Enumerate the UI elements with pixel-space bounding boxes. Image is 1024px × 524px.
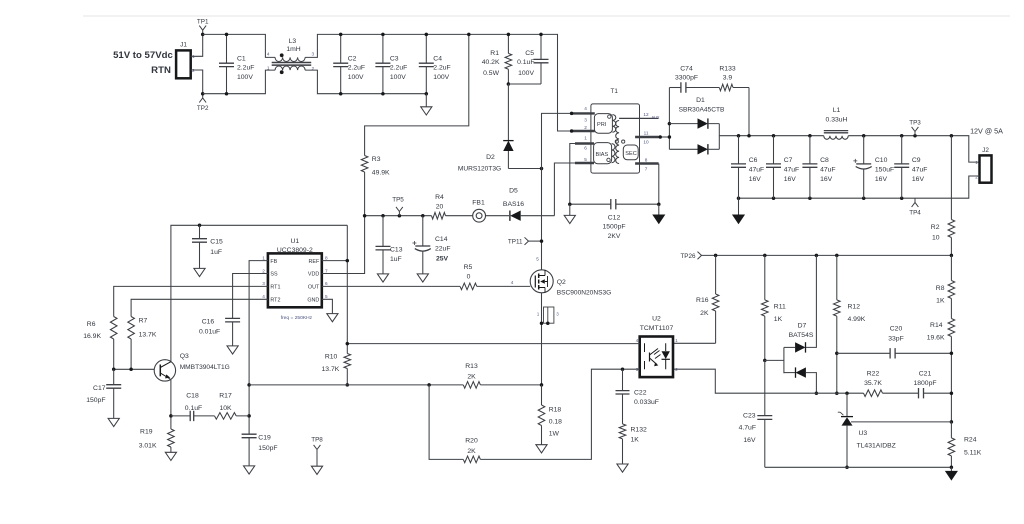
mosfet Q2 source pins box bbox=[541, 293, 543, 385]
svg-text:TP3: TP3 bbox=[909, 120, 921, 127]
svg-text:R20: R20 bbox=[465, 438, 478, 445]
svg-text:C4: C4 bbox=[433, 55, 442, 62]
svg-text:2.2uF: 2.2uF bbox=[390, 64, 407, 71]
svg-text:R132: R132 bbox=[631, 427, 647, 434]
capacitor C4 bbox=[425, 34, 427, 93]
svg-text:C3: C3 bbox=[390, 55, 399, 62]
ground U1 bbox=[327, 314, 338, 322]
resistor R6 bbox=[110, 317, 117, 340]
svg-text:0: 0 bbox=[467, 274, 471, 281]
svg-text:25V: 25V bbox=[436, 255, 449, 262]
svg-text:BIAS: BIAS bbox=[596, 152, 609, 158]
svg-text:C14: C14 bbox=[435, 236, 448, 243]
svg-text:16V: 16V bbox=[784, 176, 797, 183]
svg-text:J1: J1 bbox=[180, 42, 187, 49]
svg-text:1500pF: 1500pF bbox=[602, 224, 625, 231]
svg-text:10: 10 bbox=[932, 235, 940, 242]
svg-text:40.2K: 40.2K bbox=[482, 59, 500, 66]
svg-text:20: 20 bbox=[436, 204, 444, 211]
svg-text:R10: R10 bbox=[325, 354, 338, 361]
svg-text:2: 2 bbox=[584, 125, 587, 130]
resistor R132 bbox=[619, 424, 626, 439]
svg-text:C21: C21 bbox=[919, 371, 932, 378]
svg-text:5: 5 bbox=[536, 257, 539, 262]
resistor R24 bbox=[950, 422, 952, 467]
svg-text:100V: 100V bbox=[348, 74, 364, 81]
svg-text:U1: U1 bbox=[290, 238, 299, 245]
wire FB sense line bbox=[249, 384, 541, 386]
wire Q3 collector to REF rail bbox=[171, 225, 347, 361]
wire VDD row bbox=[365, 215, 509, 217]
capacitor C12 bbox=[611, 199, 616, 209]
svg-text:2K: 2K bbox=[700, 310, 709, 317]
svg-text:U2: U2 bbox=[652, 316, 661, 323]
svg-text:16V: 16V bbox=[875, 176, 888, 183]
svg-text:4: 4 bbox=[262, 294, 265, 299]
svg-text:1mH: 1mH bbox=[286, 46, 300, 53]
svg-text:16.9K: 16.9K bbox=[83, 333, 101, 340]
wire secondary 8-7 to secondary ground bbox=[658, 164, 660, 205]
svg-text:T1: T1 bbox=[611, 88, 619, 95]
svg-text:5.11K: 5.11K bbox=[964, 450, 982, 457]
capacitor C20 bbox=[837, 352, 952, 354]
svg-text:TP4: TP4 bbox=[909, 209, 921, 216]
svg-text:D7: D7 bbox=[798, 323, 807, 330]
svg-text:C18: C18 bbox=[186, 392, 199, 399]
resistor R1 bbox=[507, 34, 509, 84]
svg-text:3: 3 bbox=[312, 52, 315, 57]
transformer T1 outline bbox=[591, 104, 640, 173]
capacitor C17 bbox=[113, 369, 115, 418]
svg-text:2: 2 bbox=[262, 268, 265, 273]
svg-text:C22: C22 bbox=[634, 390, 647, 397]
svg-text:BAT54S: BAT54S bbox=[789, 332, 814, 339]
svg-text:Q2: Q2 bbox=[557, 279, 566, 286]
svg-text:C19: C19 bbox=[258, 435, 271, 442]
resistor R11 bbox=[764, 255, 766, 360]
svg-text:D5: D5 bbox=[509, 187, 518, 194]
svg-text:C7: C7 bbox=[784, 157, 793, 164]
capacitor C3 bbox=[382, 34, 384, 93]
test point TP5 bbox=[396, 207, 403, 216]
wire output rail 12V bbox=[719, 136, 979, 162]
svg-text:1K: 1K bbox=[936, 298, 945, 305]
wire U1 RT2 line bbox=[131, 299, 268, 316]
resistor R4 bbox=[432, 212, 446, 219]
svg-text:51V to 57Vdc: 51V to 57Vdc bbox=[113, 50, 173, 61]
svg-text:RTN: RTN bbox=[151, 65, 171, 76]
inductor L1 bbox=[824, 131, 848, 133]
capacitor C1 bbox=[226, 34, 228, 93]
svg-text:13.7K: 13.7K bbox=[139, 331, 157, 338]
wire secondary 11-10 to D1 anodes bbox=[659, 136, 670, 138]
svg-text:100V: 100V bbox=[518, 70, 534, 77]
svg-text:2KV: 2KV bbox=[608, 233, 621, 240]
svg-text:22uF: 22uF bbox=[435, 246, 451, 253]
svg-text:16V: 16V bbox=[743, 437, 756, 444]
svg-text:4: 4 bbox=[267, 52, 270, 57]
resistor R133 bbox=[719, 84, 733, 91]
wire U1 GND bbox=[322, 299, 333, 313]
svg-text:TP1: TP1 bbox=[197, 18, 209, 25]
capacitor C10 polarized bbox=[863, 136, 865, 199]
svg-text:4.7uF: 4.7uF bbox=[739, 425, 756, 432]
svg-text:PRI: PRI bbox=[597, 122, 607, 128]
svg-text:SEC: SEC bbox=[625, 151, 637, 157]
svg-text:C74: C74 bbox=[680, 65, 693, 72]
resistor R16 bbox=[673, 255, 716, 343]
transformer T1 secondary winding bbox=[616, 121, 619, 164]
ground input bulk bbox=[425, 94, 427, 107]
wire secondary bottom rail bbox=[765, 466, 952, 468]
resistor R3 bbox=[361, 156, 368, 173]
svg-text:R22: R22 bbox=[867, 371, 880, 378]
svg-text:C13: C13 bbox=[390, 247, 403, 254]
svg-text:100V: 100V bbox=[390, 74, 406, 81]
wire bias pin6 to primary ground bbox=[570, 144, 575, 205]
svg-text:0.33uH: 0.33uH bbox=[826, 117, 848, 124]
capacitor C19 bbox=[242, 434, 257, 438]
svg-text:1: 1 bbox=[584, 136, 587, 141]
capacitor C74 bbox=[669, 87, 681, 89]
svg-text:R24: R24 bbox=[964, 437, 977, 444]
wire J2 pin2 to return rail bbox=[739, 176, 980, 198]
wire TP26 rail bbox=[702, 254, 952, 256]
resistor R10 bbox=[344, 354, 351, 369]
svg-text:C10: C10 bbox=[875, 157, 888, 164]
svg-text:SS: SS bbox=[270, 272, 278, 278]
svg-text:FB1: FB1 bbox=[472, 200, 485, 207]
svg-text:C9: C9 bbox=[912, 157, 921, 164]
svg-text:7: 7 bbox=[645, 166, 648, 171]
transistor Q3 MMBT3904LT1G bbox=[154, 360, 175, 381]
svg-text:C23: C23 bbox=[743, 413, 756, 420]
diode D1 SBR30A45CTB top bbox=[669, 123, 697, 125]
svg-text:19.6K: 19.6K bbox=[927, 335, 945, 342]
wire Q3 base line bbox=[114, 368, 155, 370]
wire U1 FB net bbox=[249, 261, 268, 435]
resistor R7 bbox=[128, 317, 135, 340]
transformer T1 bias winding bbox=[594, 143, 612, 164]
wire Q3 emitter bbox=[170, 379, 171, 429]
wire U1 SS net bbox=[233, 274, 268, 319]
svg-text:D2: D2 bbox=[486, 154, 495, 161]
wire opto emitter line bbox=[480, 369, 639, 459]
wire bias pin5 to D5 anode bbox=[554, 163, 575, 216]
resistor R2 bbox=[950, 136, 952, 256]
svg-text:TP2: TP2 bbox=[197, 105, 209, 112]
svg-text:0.5W: 0.5W bbox=[483, 70, 499, 77]
optocoupler U2 TCMT1107 bbox=[640, 337, 673, 378]
svg-text:8: 8 bbox=[325, 255, 328, 260]
svg-text:R4: R4 bbox=[435, 194, 444, 201]
svg-text:C12: C12 bbox=[608, 215, 621, 222]
diode D1 bottom bbox=[669, 148, 697, 150]
svg-text:OUT: OUT bbox=[308, 285, 320, 291]
svg-text:GND: GND bbox=[307, 298, 319, 304]
svg-text:6: 6 bbox=[584, 146, 587, 151]
svg-text:R5: R5 bbox=[464, 264, 473, 271]
ferrite bead FB1 bbox=[473, 209, 486, 222]
svg-text:33pF: 33pF bbox=[888, 336, 904, 343]
svg-text:0.01uF: 0.01uF bbox=[199, 328, 220, 335]
svg-text:C8: C8 bbox=[820, 157, 829, 164]
svg-text:11: 11 bbox=[644, 131, 649, 136]
svg-text:2.2uF: 2.2uF bbox=[348, 64, 365, 71]
capacitor C7 bbox=[773, 136, 775, 199]
ground primary near T1 bbox=[569, 204, 571, 215]
wire U1 REF net bbox=[322, 225, 348, 353]
svg-text:BSC900N20NS3G: BSC900N20NS3G bbox=[557, 290, 612, 297]
resistor R12 bbox=[836, 255, 838, 393]
svg-text:C2: C2 bbox=[348, 55, 357, 62]
svg-text:10: 10 bbox=[643, 140, 649, 145]
svg-text:1: 1 bbox=[267, 66, 270, 71]
wire U1 RT1 line bbox=[114, 286, 268, 316]
svg-text:3300pF: 3300pF bbox=[675, 74, 698, 81]
capacitor C18 bbox=[171, 415, 190, 417]
ground R19 bbox=[165, 452, 176, 460]
resistor R8 bbox=[950, 255, 952, 280]
svg-text:TP5: TP5 bbox=[392, 197, 404, 204]
svg-text:1uF: 1uF bbox=[210, 249, 222, 256]
svg-text:D1: D1 bbox=[696, 97, 705, 104]
svg-text:C1: C1 bbox=[237, 55, 246, 62]
ground R18 bbox=[536, 445, 547, 453]
transformer T1 pins 2-1 stub bbox=[572, 130, 595, 132]
svg-text:C16: C16 bbox=[202, 318, 215, 325]
svg-text:R13: R13 bbox=[465, 363, 478, 370]
svg-text:35.7K: 35.7K bbox=[864, 380, 882, 387]
svg-text:5: 5 bbox=[584, 157, 587, 162]
svg-text:13.7K: 13.7K bbox=[322, 366, 340, 373]
ground R132 bbox=[617, 464, 628, 472]
capacitor C13 bbox=[382, 216, 384, 274]
shunt regulator U3 TL431AIDBZ bbox=[846, 393, 848, 416]
test point TP3 bbox=[912, 127, 919, 136]
diode D2 MURS120T3G bbox=[507, 84, 509, 141]
svg-text:R14: R14 bbox=[930, 322, 943, 329]
svg-text:freq = 250KHz: freq = 250KHz bbox=[281, 315, 313, 321]
svg-text:5: 5 bbox=[325, 294, 328, 299]
wire J1 pin1 to top rail bbox=[191, 34, 203, 56]
wire L3 right to rails bbox=[305, 34, 571, 131]
svg-text:C17: C17 bbox=[93, 385, 106, 392]
resistor R5 bbox=[460, 283, 477, 290]
wire U1 OUT gate line bbox=[322, 285, 530, 287]
svg-text:C5: C5 bbox=[525, 50, 534, 57]
svg-text:2.2uF: 2.2uF bbox=[433, 64, 450, 71]
svg-text:12V @ 5A: 12V @ 5A bbox=[970, 127, 1003, 136]
capacitor C16 bbox=[225, 318, 240, 322]
ground secondary bottom bbox=[950, 467, 952, 471]
svg-text:0.1uF: 0.1uF bbox=[517, 59, 534, 66]
capacitor C8 bbox=[809, 136, 811, 199]
resistor R14 bbox=[950, 299, 952, 319]
capacitor C23 bbox=[764, 360, 766, 467]
svg-text:R7: R7 bbox=[139, 317, 148, 324]
svg-text:VDD: VDD bbox=[308, 272, 319, 278]
svg-text:1uF: 1uF bbox=[390, 256, 402, 263]
svg-text:1800pF: 1800pF bbox=[913, 380, 936, 387]
capacitor C14 polarized bbox=[422, 216, 424, 274]
svg-text:R17: R17 bbox=[219, 392, 232, 399]
resistor R22 bbox=[864, 390, 883, 397]
svg-text:1W: 1W bbox=[549, 431, 560, 438]
transformer T1 pins 11-10 stub bbox=[635, 136, 659, 138]
svg-text:0.18: 0.18 bbox=[549, 419, 562, 426]
resistor R17 bbox=[194, 415, 249, 417]
wire top rail input bbox=[203, 34, 275, 57]
svg-text:MMBT3904LT1G: MMBT3904LT1G bbox=[180, 364, 230, 371]
svg-text:R16: R16 bbox=[696, 297, 709, 304]
capacitor C21 bbox=[919, 388, 924, 398]
svg-text:C6: C6 bbox=[749, 157, 758, 164]
svg-text:TP26: TP26 bbox=[680, 253, 696, 260]
svg-text:49.9K: 49.9K bbox=[372, 170, 390, 177]
svg-text:10K: 10K bbox=[219, 405, 232, 412]
svg-text:47uF: 47uF bbox=[820, 166, 836, 173]
svg-text:R12: R12 bbox=[848, 304, 861, 311]
svg-text:7: 7 bbox=[325, 268, 328, 273]
svg-text:6: 6 bbox=[325, 281, 328, 286]
wire clamp branch from top rail bbox=[365, 34, 469, 155]
svg-text:R133: R133 bbox=[719, 65, 735, 72]
svg-text:C20: C20 bbox=[890, 326, 903, 333]
svg-text:C15: C15 bbox=[210, 239, 223, 246]
inductor L3 common-mode choke bbox=[275, 57, 305, 61]
mosfet Q2 BSC900N20NS3G bbox=[530, 270, 553, 293]
svg-text:3.9: 3.9 bbox=[723, 74, 733, 81]
svg-text:TL431AIDBZ: TL431AIDBZ bbox=[857, 443, 896, 450]
resistor R20 bbox=[463, 456, 480, 463]
svg-text:2K: 2K bbox=[467, 448, 476, 455]
svg-text:AUX: AUX bbox=[652, 115, 660, 120]
wire primary ground row bbox=[570, 203, 659, 205]
ground C13 bbox=[377, 274, 388, 282]
svg-text:MURS120T3G: MURS120T3G bbox=[458, 166, 501, 173]
svg-text:3: 3 bbox=[584, 117, 587, 122]
ground C14 bbox=[417, 274, 428, 282]
wire U3 ref line bbox=[851, 421, 951, 423]
svg-text:4: 4 bbox=[511, 280, 514, 285]
svg-text:Q3: Q3 bbox=[180, 353, 189, 360]
connector J2 bbox=[980, 155, 992, 182]
svg-text:3.01K: 3.01K bbox=[139, 443, 157, 450]
resistor R18 bbox=[541, 385, 543, 405]
svg-text:R11: R11 bbox=[774, 304, 786, 311]
wire primary top to drain column bbox=[542, 113, 572, 269]
svg-text:UCC3809-2: UCC3809-2 bbox=[277, 247, 313, 254]
transformer T1 pins 4-3 stub bbox=[572, 112, 595, 114]
svg-text:150pF: 150pF bbox=[86, 397, 105, 404]
svg-text:R1: R1 bbox=[490, 50, 499, 57]
test point TP4 bbox=[912, 198, 919, 207]
test point TP1 bbox=[199, 26, 206, 35]
wire bottom rail input bbox=[203, 70, 275, 94]
svg-text:150pF: 150pF bbox=[258, 445, 277, 452]
svg-text:R2: R2 bbox=[931, 224, 940, 231]
svg-text:2.2uF: 2.2uF bbox=[237, 64, 254, 71]
svg-text:16V: 16V bbox=[749, 176, 762, 183]
svg-text:SBR30A45CTB: SBR30A45CTB bbox=[679, 106, 725, 113]
test point TP2 bbox=[199, 94, 206, 103]
capacitor C9 bbox=[901, 136, 903, 199]
resistor R13 bbox=[463, 382, 480, 389]
svg-text:100V: 100V bbox=[433, 74, 449, 81]
svg-text:8: 8 bbox=[645, 157, 648, 162]
capacitor C2 bbox=[340, 34, 342, 93]
svg-text:L3: L3 bbox=[289, 38, 297, 45]
capacitor C6 bbox=[738, 136, 740, 199]
wire divider column bbox=[950, 353, 952, 422]
svg-text:R18: R18 bbox=[549, 407, 562, 414]
transformer T1 pin 12 aux stub bbox=[619, 117, 658, 119]
svg-text:16V: 16V bbox=[820, 176, 833, 183]
ground C19 bbox=[244, 466, 255, 474]
transformer T1 pins 8-7 stub bbox=[635, 162, 659, 164]
svg-text:3: 3 bbox=[262, 281, 265, 286]
svg-text:150uF: 150uF bbox=[875, 166, 894, 173]
svg-text:100V: 100V bbox=[237, 74, 253, 81]
svg-text:U3: U3 bbox=[859, 430, 868, 437]
svg-text:RT2: RT2 bbox=[270, 298, 280, 304]
svg-text:J2: J2 bbox=[982, 147, 989, 154]
resistor R19 bbox=[168, 429, 175, 447]
wire opto collector to REF divider bbox=[347, 343, 639, 345]
node J1 pin1 junction bbox=[201, 33, 205, 37]
svg-text:1: 1 bbox=[262, 255, 265, 260]
svg-text:47uF: 47uF bbox=[749, 166, 765, 173]
svg-text:1K: 1K bbox=[631, 437, 640, 444]
svg-text:12: 12 bbox=[643, 112, 649, 117]
svg-text:R8: R8 bbox=[936, 285, 945, 292]
svg-text:R19: R19 bbox=[140, 429, 153, 436]
svg-text:R3: R3 bbox=[372, 156, 381, 163]
svg-text:4: 4 bbox=[584, 106, 587, 111]
svg-text:0.033uF: 0.033uF bbox=[634, 399, 659, 406]
svg-text:1K: 1K bbox=[774, 316, 783, 323]
wire J1 pin2 to bottom rail bbox=[191, 70, 203, 94]
svg-text:L1: L1 bbox=[833, 107, 841, 114]
transformer T1 pin 5 stub bbox=[575, 162, 594, 164]
controller U1 UCC3809-2 bbox=[268, 253, 322, 307]
svg-text:2K: 2K bbox=[467, 374, 476, 381]
svg-text:16V: 16V bbox=[912, 176, 925, 183]
ground TP8 bbox=[311, 466, 322, 474]
diode D5 BAS16 bbox=[509, 211, 511, 221]
wire D1 anode column bbox=[668, 88, 670, 150]
capacitor C22 bbox=[622, 369, 624, 424]
svg-text:FB: FB bbox=[270, 259, 277, 265]
svg-text:4.99K: 4.99K bbox=[848, 316, 866, 323]
connector J1 bbox=[176, 50, 191, 78]
wire R20 branch bbox=[429, 385, 463, 460]
svg-text:TP8: TP8 bbox=[311, 437, 323, 444]
ground C15 bbox=[194, 268, 205, 276]
svg-text:RT1: RT1 bbox=[270, 285, 280, 291]
ground C16 bbox=[227, 346, 238, 354]
capacitor C15 bbox=[199, 225, 201, 268]
ground output bbox=[738, 198, 740, 215]
wire U1 VDD net bbox=[322, 216, 365, 274]
transformer T1 primary winding bbox=[594, 114, 612, 134]
svg-text:R6: R6 bbox=[87, 321, 96, 328]
svg-text:TCMT1107: TCMT1107 bbox=[640, 325, 674, 332]
svg-text:0.1uF: 0.1uF bbox=[185, 405, 202, 412]
ground C17 bbox=[108, 418, 119, 426]
svg-text:BAS16: BAS16 bbox=[503, 201, 524, 208]
